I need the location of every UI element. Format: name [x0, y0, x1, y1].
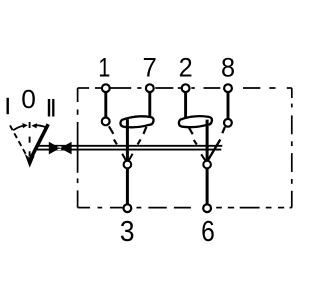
enclosure dashed box : bottom border: [78, 207, 292, 209]
pivot circle 6: [203, 161, 211, 169]
actuator bar (double line): [35, 146, 222, 150]
wire terminal 2: [184, 91, 187, 118]
lever arrowhead: [25, 154, 35, 168]
terminal circle 8: [224, 84, 232, 92]
wire terminal 7: [148, 91, 151, 118]
terminal circle 7: [146, 84, 154, 92]
lever: [31, 124, 49, 159]
svg-text:0: 0: [21, 84, 36, 114]
contact circle 1b: [102, 118, 110, 126]
position label I: [6, 98, 8, 114]
svg-text:8: 8: [221, 52, 235, 83]
wire terminal 8: [227, 91, 230, 120]
dashed ray position I: [10, 125, 26, 154]
pusher tick left of pivot 3: [114, 139, 117, 144]
contact tick terminal 1: [109, 126, 114, 134]
wire terminal 1: [104, 91, 107, 119]
pusher tick right of pivot 3: [138, 139, 141, 144]
movable arm pivot 6 to contact 8: [208, 140, 220, 160]
travel arc right with arrowhead: [31, 123, 46, 128]
terminal circle 6: [203, 204, 211, 212]
enclosure dashed box : top border: [78, 87, 292, 89]
pivot 3 trident: [122, 154, 132, 161]
svg-text:2: 2: [179, 52, 193, 83]
contact circle 8b: [224, 119, 232, 127]
pivot 6 left prong: [201, 154, 205, 160]
pusher tick left of pivot 6: [194, 140, 197, 145]
travel arc left with arrowhead: [13, 123, 28, 130]
stem terminal 3: [126, 119, 129, 205]
contact bridge dome 2: [179, 116, 212, 127]
terminal circle 3: [124, 204, 132, 212]
contact bridge dome 1: [120, 116, 153, 127]
contact tick terminal 8: [222, 127, 225, 133]
stem terminal 6: [206, 120, 209, 205]
dome 2 leg: [189, 127, 193, 134]
enclosure dashed box : left border: [77, 88, 79, 208]
position label II: [49, 99, 53, 117]
pivot circle 3: [124, 161, 132, 169]
dome 1 leg: [144, 127, 147, 134]
svg-text:3: 3: [120, 215, 135, 247]
svg-text:7: 7: [143, 52, 157, 83]
dashed ray position 0: [29, 122, 31, 157]
terminal circle 1: [102, 84, 110, 92]
svg-text:6: 6: [201, 215, 215, 247]
terminal circle 2: [182, 84, 190, 92]
svg-text:1: 1: [98, 53, 110, 83]
detent bowtie: [49, 142, 72, 155]
enclosure dashed box : right border: [291, 88, 293, 208]
